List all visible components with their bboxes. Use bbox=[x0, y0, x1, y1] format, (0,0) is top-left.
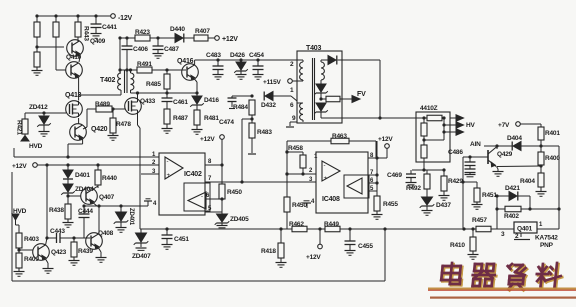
svg-text:Q420: Q420 bbox=[91, 126, 108, 133]
svg-text:C406: C406 bbox=[133, 46, 148, 53]
svg-text:Q429: Q429 bbox=[497, 151, 513, 158]
svg-text:3: 3 bbox=[501, 231, 505, 238]
svg-text:-12V: -12V bbox=[118, 15, 133, 22]
svg-text:PNP: PNP bbox=[540, 242, 554, 249]
svg-text:R402: R402 bbox=[504, 213, 519, 220]
svg-text:R421: R421 bbox=[16, 120, 23, 135]
svg-text:ZD407: ZD407 bbox=[132, 253, 151, 260]
svg-text:IC408: IC408 bbox=[322, 196, 340, 203]
svg-text:R458: R458 bbox=[288, 145, 303, 152]
svg-text:+7V: +7V bbox=[498, 122, 510, 129]
svg-text:R449: R449 bbox=[324, 221, 339, 228]
svg-text:R451: R451 bbox=[482, 192, 497, 199]
svg-text:T402: T402 bbox=[100, 77, 115, 84]
svg-text:R484: R484 bbox=[233, 104, 248, 111]
svg-text:D421: D421 bbox=[505, 185, 520, 192]
svg-text:D416: D416 bbox=[204, 97, 219, 104]
svg-text:C441: C441 bbox=[102, 24, 117, 31]
svg-text:R403: R403 bbox=[24, 236, 39, 243]
svg-text:-: - bbox=[201, 194, 203, 200]
svg-text:R404: R404 bbox=[520, 178, 535, 185]
svg-text:C451: C451 bbox=[174, 236, 189, 243]
svg-text:R410: R410 bbox=[450, 242, 465, 249]
svg-text:R462: R462 bbox=[289, 221, 304, 228]
svg-text:+12V: +12V bbox=[12, 163, 27, 170]
svg-text:C486: C486 bbox=[448, 149, 463, 156]
svg-text:D432: D432 bbox=[261, 102, 276, 109]
svg-text:HV: HV bbox=[466, 122, 475, 129]
svg-text:R481: R481 bbox=[204, 115, 219, 122]
svg-text:+12V: +12V bbox=[222, 36, 238, 43]
svg-text:R485: R485 bbox=[146, 81, 161, 88]
svg-text:R457: R457 bbox=[472, 217, 487, 224]
svg-text:+12V: +12V bbox=[306, 254, 321, 261]
svg-text:R401: R401 bbox=[545, 130, 560, 137]
svg-text:C461: C461 bbox=[173, 99, 188, 106]
svg-text:C454: C454 bbox=[249, 52, 264, 59]
svg-text:2: 2 bbox=[290, 61, 294, 68]
svg-text:AIN: AIN bbox=[470, 141, 481, 148]
svg-text:D426: D426 bbox=[230, 52, 245, 59]
svg-text:R491: R491 bbox=[137, 61, 152, 68]
svg-text:R489: R489 bbox=[95, 101, 110, 108]
svg-text:C487: C487 bbox=[164, 46, 179, 53]
svg-text:C443: C443 bbox=[50, 228, 65, 235]
svg-text:R400: R400 bbox=[545, 155, 560, 162]
svg-text:HVD: HVD bbox=[29, 143, 43, 150]
svg-text:+115V: +115V bbox=[263, 79, 281, 86]
svg-text:Q409: Q409 bbox=[90, 38, 106, 45]
svg-text:+12V: +12V bbox=[378, 136, 393, 143]
svg-text:R492: R492 bbox=[406, 185, 421, 192]
svg-text:9: 9 bbox=[292, 115, 296, 122]
svg-text:1: 1 bbox=[290, 87, 294, 94]
svg-text:-: - bbox=[167, 159, 169, 165]
svg-text:D401: D401 bbox=[75, 172, 90, 179]
svg-text:ZD412: ZD412 bbox=[29, 104, 48, 111]
svg-text:ZD405: ZD405 bbox=[230, 216, 249, 223]
svg-text:Q407: Q407 bbox=[99, 194, 115, 201]
svg-text:4410Z: 4410Z bbox=[420, 105, 438, 112]
svg-text:D404: D404 bbox=[507, 135, 522, 142]
svg-text:R423: R423 bbox=[135, 29, 150, 36]
svg-text:Q401: Q401 bbox=[517, 226, 533, 233]
svg-text:Q413: Q413 bbox=[65, 92, 82, 99]
svg-text:C474: C474 bbox=[219, 119, 234, 126]
svg-text:ZD401: ZD401 bbox=[128, 208, 134, 226]
svg-text:R455: R455 bbox=[383, 201, 398, 208]
svg-text:C469: C469 bbox=[387, 172, 402, 179]
svg-text:R438: R438 bbox=[49, 207, 64, 214]
svg-text:+12V: +12V bbox=[200, 136, 215, 143]
svg-text:R463: R463 bbox=[332, 133, 347, 140]
svg-text:FV: FV bbox=[357, 91, 366, 98]
svg-text:T403: T403 bbox=[306, 45, 321, 52]
svg-text:R487: R487 bbox=[173, 115, 188, 122]
svg-text:R440: R440 bbox=[102, 175, 117, 182]
svg-text:Q408: Q408 bbox=[98, 230, 114, 237]
svg-text:D440: D440 bbox=[170, 26, 185, 33]
svg-text:Q433: Q433 bbox=[140, 98, 156, 105]
svg-text:R450: R450 bbox=[227, 189, 242, 196]
svg-text:-: - bbox=[324, 163, 326, 169]
svg-text:Q423: Q423 bbox=[51, 249, 67, 256]
svg-text:Q416: Q416 bbox=[177, 58, 194, 65]
svg-text:6: 6 bbox=[290, 102, 294, 109]
svg-text:C455: C455 bbox=[358, 243, 373, 250]
svg-text:R407: R407 bbox=[195, 28, 210, 35]
svg-text:R483: R483 bbox=[257, 129, 272, 136]
svg-text:KA7542: KA7542 bbox=[535, 235, 558, 242]
svg-text:IC402: IC402 bbox=[184, 171, 202, 178]
svg-text:R418: R418 bbox=[261, 248, 276, 255]
svg-text:R429: R429 bbox=[448, 178, 463, 185]
svg-text:R478: R478 bbox=[116, 121, 131, 128]
svg-text:R443: R443 bbox=[83, 26, 90, 41]
svg-text:D437: D437 bbox=[436, 202, 451, 209]
svg-text:C483: C483 bbox=[206, 52, 221, 59]
